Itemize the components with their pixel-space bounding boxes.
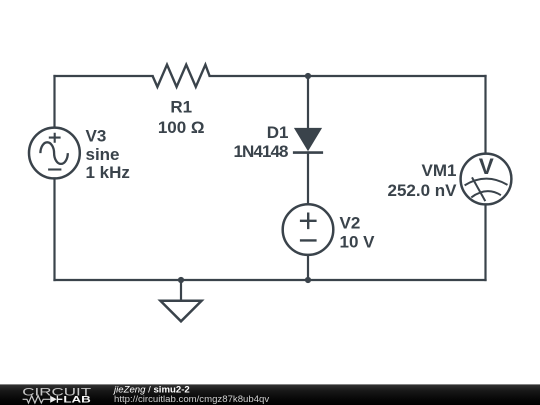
CircuitLab logo resistor zigzag (23, 396, 50, 403)
wire right vertical top (VM1 top lead) (484, 76, 486, 154)
svg-text:R1: R1 (170, 98, 192, 117)
svg-text:V3: V3 (86, 126, 107, 145)
resistor R1 (153, 65, 210, 87)
diode D1 (293, 128, 323, 153)
node junction at V2 bottom (305, 277, 311, 283)
svg-text:http://circuitlab.com/cmgz87k8: http://circuitlab.com/cmgz87k8ub4qv (114, 394, 269, 405)
voltage source V2 (DC) (283, 204, 334, 255)
wire left vertical bottom (V3 bottom lead) (53, 178, 55, 280)
node junction at R1/D1 top (305, 73, 311, 79)
wire top right segment (210, 75, 486, 77)
svg-text:sine: sine (86, 145, 120, 164)
wire top left segment (55, 75, 153, 77)
svg-text:V2: V2 (340, 214, 361, 233)
svg-text:100 Ω: 100 Ω (158, 118, 205, 137)
svg-text:252.0 nV: 252.0 nV (388, 181, 458, 200)
svg-text:10 V: 10 V (340, 233, 376, 252)
svg-text:1N4148: 1N4148 (234, 142, 289, 161)
voltmeter VM1 (461, 154, 512, 205)
ground (160, 280, 201, 321)
wire right vertical bottom (VM1 bottom lead) (484, 204, 486, 280)
svg-text:1 kHz: 1 kHz (86, 163, 130, 182)
wire left vertical top (V3 top lead) (53, 76, 55, 128)
svg-text:LAB: LAB (63, 394, 91, 405)
wire middle vertical top (D1 anode lead) (307, 76, 309, 130)
svg-text:VM1: VM1 (422, 161, 457, 180)
wire middle vertical mid (D1 cathode to V2) (307, 153, 309, 205)
svg-text:D1: D1 (267, 123, 289, 142)
voltage source V3 (sine) (29, 128, 80, 179)
node junction at ground (178, 277, 184, 283)
wire middle vertical bottom (V2 bottom lead) (307, 255, 309, 280)
footer bar (0, 384, 540, 405)
svg-text:V: V (479, 154, 494, 179)
wire bottom horizontal (55, 279, 486, 281)
CircuitLab logo diode (50, 396, 57, 403)
